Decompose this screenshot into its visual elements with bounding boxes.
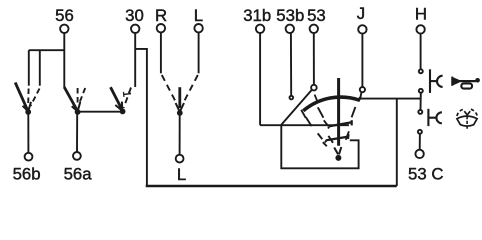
terminal L bottom (176, 155, 184, 163)
wiper icon (457, 109, 477, 129)
switch S3 dashed position (124, 88, 131, 109)
wiper pushbutton cap (436, 112, 441, 123)
terminal 53b (286, 25, 294, 33)
svg-text:J: J (357, 4, 365, 23)
terminal 53C (415, 150, 423, 158)
svg-text:1: 1 (120, 90, 133, 97)
svg-text:56a: 56a (64, 164, 93, 183)
rotary contact tick 53 (315, 95, 317, 101)
switch S2 arm (64, 87, 76, 109)
rotary dashed spoke J dash2 (346, 131, 349, 140)
wire 30 branch to bus (135, 49, 147, 186)
terminal 30 (131, 25, 139, 33)
wire J drop (361, 34, 363, 87)
node S4 (177, 110, 183, 116)
terminal 53 (310, 25, 318, 33)
stub J contact to wire (360, 92, 361, 98)
terminal 31b (256, 25, 264, 33)
wire node S1 to 56b (27, 112, 29, 153)
switch S1 arm (15, 83, 27, 110)
contact dot 53b (290, 96, 294, 100)
rotary dashed spoke low dash1 (318, 133, 323, 139)
rotary dashed spoke left dash2 (306, 117, 312, 126)
horn icon (452, 77, 480, 89)
switch S4 dashed position from R (162, 75, 177, 104)
wire 56 horizontal branch (29, 49, 65, 51)
contact circle wiper bottom (418, 130, 422, 134)
wire 30 vertical (134, 33, 136, 87)
rotary dashed spoke mid dash2 (324, 120, 328, 126)
svg-text:53b: 53b (276, 6, 304, 25)
wire J contact to H column (360, 98, 421, 100)
wiper pushbutton bar (427, 109, 429, 126)
svg-text:30: 30 (125, 6, 144, 25)
wire 53b drop (290, 33, 292, 95)
rotary pivot (335, 155, 341, 161)
rotary dashed spoke left dash1 (301, 110, 305, 118)
rotary dashed spoke mid dash1 (318, 107, 324, 117)
switch S2 arrowhead (72, 102, 81, 111)
rotary dashed spoke lever dash (328, 136, 333, 143)
rotary lever (337, 78, 340, 146)
rotary crossbar upper (329, 122, 351, 126)
terminal R (157, 24, 165, 32)
rotary dashed spoke J dash1 (352, 107, 356, 117)
wire horn to wiper contact (420, 93, 422, 110)
switch S2 dashed position vertical (77, 88, 79, 104)
switch S4 arrowhead (176, 103, 184, 111)
rotary arrow to pivot (334, 147, 341, 154)
svg-text:L: L (194, 6, 203, 25)
wire L drop (198, 32, 200, 73)
svg-text:53: 53 (307, 6, 326, 25)
switch S3 arm (111, 87, 122, 109)
wire 31b horizontal into box (260, 124, 349, 126)
contact circle 53 (311, 85, 317, 91)
wire node S2 to 56a (76, 112, 78, 152)
switch S2 dashed position diagonal (79, 88, 85, 104)
node S1 (25, 109, 31, 115)
svg-text:31b: 31b (243, 6, 271, 25)
terminal 56b (25, 153, 33, 161)
terminal 56a (73, 152, 81, 160)
terminal L top (194, 24, 202, 32)
wire node S4 to L bottom (179, 113, 181, 155)
wire 53 drop (313, 33, 315, 85)
rotary switch arc (303, 97, 360, 111)
wire contact drop x39.8 (39, 50, 41, 85)
wire 53 diagonal to box corner (281, 90, 312, 125)
terminal 56 (60, 25, 68, 33)
bus bottom horizontal (146, 185, 397, 188)
svg-text:R: R (155, 6, 167, 25)
svg-text:L: L (177, 165, 186, 184)
svg-text:56: 56 (55, 6, 74, 25)
wire H drop (420, 34, 422, 70)
wiper pushbutton stub (428, 117, 436, 119)
wire node S2 to node S3 (78, 111, 123, 113)
horn pushbutton cap (437, 76, 443, 87)
terminal J (358, 25, 366, 33)
horn pushbutton bar (429, 69, 431, 93)
wire 56 vertical down to switch arm bend (63, 33, 65, 88)
horn pushbutton stub (430, 80, 437, 82)
svg-text:H: H (415, 5, 427, 24)
switch S1 dashed position diagonal (31, 89, 40, 107)
contact circle horn bottom (419, 89, 423, 93)
switch S4 dashed position from L (183, 75, 198, 104)
wire R drop (160, 32, 162, 73)
node S2 (75, 109, 81, 115)
node S3 (120, 109, 126, 115)
box outline (281, 125, 358, 168)
bus vertical right (396, 99, 398, 186)
switch S4 arm (178, 87, 181, 108)
rotary dashed spoke low dash2 (323, 142, 327, 146)
rotary crossbar lower (326, 137, 348, 141)
contact circle wiper top (418, 110, 422, 114)
switch S1 arrowhead (23, 102, 31, 111)
contact circle horn top (419, 69, 423, 73)
wire wiper contact to 53C (419, 134, 421, 150)
switch S1 dashed position vertical (27, 89, 29, 105)
terminal H (416, 25, 424, 33)
switch S3 arrowhead (115, 102, 122, 111)
wire contact drop x28.8 (28, 50, 30, 85)
svg-text:56b: 56b (13, 164, 41, 183)
wire 31b drop (259, 33, 261, 125)
contact circle J (360, 87, 365, 92)
svg-text:53 C: 53 C (408, 164, 443, 183)
